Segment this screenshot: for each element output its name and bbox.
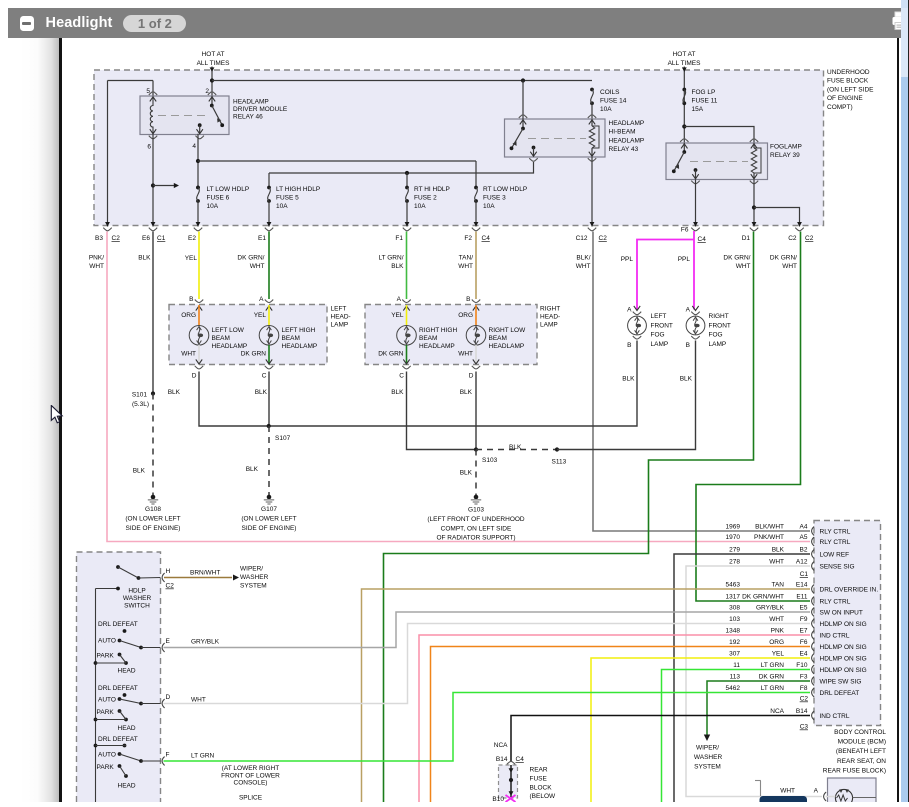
wire BLK dashed S103 to G103 (475, 450, 477, 498)
svg-text:HEAD: HEAD (118, 668, 136, 675)
svg-text:BLK: BLK (168, 389, 181, 396)
svg-text:NCA: NCA (770, 708, 784, 715)
svg-text:BLK: BLK (680, 376, 693, 383)
switch section E: AUTO position and blade (98, 638, 161, 650)
wire YEL 307 row (591, 658, 810, 802)
wire LT GRN 11 row (662, 670, 811, 803)
svg-text:HEADLAMP: HEADLAMP (489, 343, 525, 350)
fog lamp bulb right front fog lamp (686, 316, 705, 335)
svg-text:SYSTEM: SYSTEM (694, 764, 721, 771)
relay46 coil (pin5-pin6) (149, 92, 157, 139)
wiper washer switch contacts (116, 565, 160, 580)
svg-text:BODY CONTROL: BODY CONTROL (834, 729, 886, 736)
svg-text:1317: 1317 (726, 594, 741, 601)
svg-text:FOG: FOG (709, 332, 723, 339)
svg-text:FUSE: FUSE (530, 775, 548, 782)
switch section F: AUTO position and blade (98, 752, 161, 763)
svg-text:IND CTRL: IND CTRL (820, 633, 850, 640)
splice S103 (474, 447, 498, 464)
svg-text:RELAY 39: RELAY 39 (770, 152, 800, 159)
svg-text:BLK/WHT: BLK/WHT (755, 524, 784, 531)
svg-text:LAMP: LAMP (651, 341, 669, 348)
svg-text:REAR: REAR (530, 767, 548, 774)
wire WHT 278 row (686, 566, 822, 797)
label: foglamp relay 39 (770, 144, 802, 160)
arrow: branch pointer at pin6 wire (153, 183, 179, 188)
label fuse 5 (276, 186, 320, 210)
svg-text:A: A (686, 307, 691, 314)
lamp bulb LEFT LOW (189, 326, 209, 346)
switch section D: HEAD position (118, 711, 136, 732)
connector bracket B14 (507, 761, 515, 764)
svg-text:FUSE 5: FUSE 5 (276, 195, 299, 202)
fuse F5 LT HIGH HDLP 10A (267, 173, 272, 227)
wire TAN 5463 row (362, 589, 811, 802)
svg-text:GRY/BLK: GRY/BLK (756, 605, 785, 612)
svg-text:WASHER: WASHER (240, 574, 269, 581)
label hdlp washer switch (123, 588, 152, 610)
svg-text:DK GRN: DK GRN (378, 351, 404, 358)
headlamp connector B (466, 296, 480, 311)
svg-text:278: 278 (729, 559, 740, 566)
svg-text:307: 307 (729, 651, 740, 658)
connector B14 C4 labels (496, 756, 524, 763)
svg-text:D: D (166, 694, 171, 701)
label wiper washer system (top) (240, 566, 269, 590)
svg-text:HEADLAMP: HEADLAMP (233, 99, 269, 106)
labels RIGHT LOW (489, 327, 527, 350)
svg-text:E7: E7 (800, 628, 808, 635)
svg-text:BEAM: BEAM (419, 335, 437, 342)
svg-text:A: A (259, 296, 264, 303)
page curl shadow (20, 38, 59, 802)
svg-text:WIPER/: WIPER/ (696, 745, 719, 752)
lamp bulb RIGHT LOW (466, 326, 486, 346)
svg-text:WHT: WHT (89, 263, 104, 270)
wire: fog fuse to relay39 coil feed (684, 127, 754, 144)
svg-text:BLK: BLK (509, 444, 522, 451)
label left headlamp (331, 306, 351, 329)
svg-text:E14: E14 (796, 582, 808, 589)
label LT GRN/BLK (378, 255, 404, 271)
svg-text:PARK: PARK (97, 709, 115, 716)
window right edge (907, 0, 909, 802)
svg-text:PNK/: PNK/ (89, 255, 104, 262)
svg-text:1348: 1348 (726, 628, 741, 635)
svg-text:(BELOW: (BELOW (530, 793, 557, 800)
switch rail tap D (94, 718, 126, 722)
svg-text:FRONT OF LOWER: FRONT OF LOWER (221, 772, 280, 779)
svg-text:FUSE 11: FUSE 11 (692, 98, 718, 105)
label right headlamp (540, 306, 560, 329)
svg-text:DRIVER MODULE: DRIVER MODULE (233, 106, 288, 113)
svg-text:C: C (399, 373, 404, 380)
svg-text:D1: D1 (742, 235, 751, 242)
svg-text:D: D (469, 373, 474, 380)
wire ORG into lamp (475, 305, 477, 326)
svg-text:F2: F2 (464, 235, 472, 242)
wire: hot bus left segment to B3 riser (108, 80, 154, 82)
svg-text:HDLP: HDLP (128, 588, 145, 595)
wire TAN/WHT from F2 to right headlamp B (475, 232, 477, 300)
svg-text:(ON LEFT SIDE: (ON LEFT SIDE (827, 86, 874, 93)
svg-text:YEL: YEL (391, 312, 404, 319)
svg-text:ALL TIMES: ALL TIMES (197, 60, 231, 67)
svg-text:COMPT, ON LEFT SIDE: COMPT, ON LEFT SIDE (441, 525, 512, 532)
wire WHT out of lamp (198, 345, 200, 365)
fuse F6 LT LOW HDLP 10A (196, 186, 201, 227)
svg-text:WIPER/: WIPER/ (240, 566, 263, 573)
svg-text:LEFT HIGH: LEFT HIGH (282, 327, 316, 334)
relay43 switch (510, 115, 538, 161)
svg-text:PNK/WHT: PNK/WHT (754, 534, 784, 541)
svg-text:C2: C2 (788, 235, 797, 242)
labels LEFT LOW (212, 327, 248, 350)
wire WHT out of lamp (475, 345, 477, 365)
relay39 dashed actuator line (690, 161, 748, 163)
svg-text:PPL: PPL (678, 256, 691, 263)
wire: hot bus right segment (212, 78, 592, 82)
splice S113 (552, 447, 567, 465)
label fuse 11 (692, 89, 718, 113)
mouse cursor (50, 405, 64, 426)
wire PPL from F6 to fog lamps (637, 231, 694, 310)
svg-text:BLK: BLK (460, 389, 473, 396)
label DK GRN/WHT (D1) (723, 255, 750, 271)
relay39 switch (672, 139, 700, 184)
wire PNK/WHT from B3 to BCM row 1970 (107, 232, 810, 542)
lamp bulb LEFT HIGH (259, 326, 279, 346)
svg-text:AUTO: AUTO (98, 752, 116, 759)
svg-text:DK GRN/WHT: DK GRN/WHT (742, 594, 784, 601)
svg-text:B14: B14 (496, 756, 508, 763)
svg-text:LT LOW HDLP: LT LOW HDLP (207, 186, 250, 193)
svg-text:10A: 10A (483, 203, 495, 210)
svg-text:C: C (262, 373, 267, 380)
svg-text:BEAM: BEAM (282, 335, 300, 342)
labels BLK under headlamps (168, 389, 473, 396)
svg-text:PARK: PARK (97, 653, 115, 660)
svg-text:C1: C1 (800, 571, 809, 578)
svg-text:RLY CTRL: RLY CTRL (820, 539, 851, 546)
svg-text:LAMP: LAMP (540, 322, 558, 329)
svg-text:(LEFT FRONT OF UNDERHOOD: (LEFT FRONT OF UNDERHOOD (427, 516, 525, 523)
printer icon (891, 9, 909, 33)
svg-text:FUSE BLOCK: FUSE BLOCK (827, 78, 869, 85)
svg-text:DK GRN: DK GRN (241, 351, 267, 358)
label fuse 2 (414, 186, 450, 210)
svg-text:A: A (627, 307, 632, 314)
svg-text:WHT: WHT (736, 263, 751, 270)
wire: B3 riser (105, 81, 110, 227)
connector brackets on fuse block bottom edge (103, 228, 803, 231)
svg-text:C4: C4 (482, 235, 491, 242)
svg-text:ALL TIMES: ALL TIMES (668, 60, 702, 67)
svg-text:S103: S103 (482, 457, 498, 464)
svg-text:FOG LP: FOG LP (692, 89, 716, 96)
svg-text:BLK: BLK (246, 466, 259, 473)
svg-text:SENSE SIG: SENSE SIG (820, 564, 855, 571)
svg-text:RT HI HDLP: RT HI HDLP (414, 186, 450, 193)
svg-text:A: A (814, 788, 819, 795)
svg-text:BEAM: BEAM (489, 335, 507, 342)
svg-text:5: 5 (146, 88, 150, 95)
svg-text:C2: C2 (805, 235, 814, 242)
svg-text:DRL OVERRIDE IN.: DRL OVERRIDE IN. (820, 587, 879, 594)
title bar (8, 8, 909, 38)
svg-text:HEADLAMP: HEADLAMP (282, 343, 318, 350)
connector H (162, 568, 174, 590)
rear fuse block box (499, 765, 518, 798)
svg-text:SW ON INPUT: SW ON INPUT (820, 610, 863, 617)
svg-text:SYSTEM: SYSTEM (240, 583, 267, 590)
fuse F11 FOG LP 15A (682, 88, 686, 129)
BCM box (814, 521, 881, 726)
relay46 switch (pin2-pin4) (196, 92, 225, 139)
svg-text:B2: B2 (800, 547, 808, 554)
svg-text:RELAY 43: RELAY 43 (609, 146, 639, 153)
label: headlamp driver module relay 46 (233, 99, 288, 121)
wire BLK dashed S103 to S113 (476, 449, 557, 451)
label BLK/WHT (576, 255, 591, 271)
svg-text:DRL DEFEAT: DRL DEFEAT (98, 685, 138, 692)
switch common rail (96, 587, 120, 802)
fuse F2 RT HI HDLP 10A (405, 173, 410, 227)
svg-text:BLK: BLK (460, 470, 473, 477)
fog lamp bottom connector B (left front fog lamp) (627, 336, 641, 349)
label DK GRN/WHT (237, 255, 264, 271)
svg-text:GRY/BLK: GRY/BLK (191, 639, 220, 646)
wire DK GRN/WHT from E1 to left headlamp A (268, 232, 270, 300)
headlamp bottom connector C (399, 359, 410, 379)
switch section F: HEAD position (118, 766, 136, 790)
svg-text:6: 6 (147, 144, 151, 151)
svg-text:DK GRN/: DK GRN/ (237, 255, 264, 262)
svg-text:FUSE 2: FUSE 2 (414, 195, 437, 202)
svg-text:HOT AT: HOT AT (202, 51, 225, 58)
fog lamp bulb left front fog lamp (628, 316, 647, 335)
svg-text:YEL: YEL (254, 312, 267, 319)
wire: relay46 pin5 riser (152, 81, 154, 97)
svg-text:B: B (627, 342, 631, 349)
svg-text:A: A (397, 296, 402, 303)
splice S101 (132, 391, 155, 408)
wire DK GRN 113 row to wiper system (704, 681, 810, 741)
small corner wire bottom (755, 781, 761, 797)
svg-text:DK GRN/: DK GRN/ (723, 255, 750, 262)
svg-text:B10: B10 (492, 796, 504, 802)
svg-text:BLK/: BLK/ (576, 255, 590, 262)
connector E (162, 638, 170, 652)
svg-text:LT GRN: LT GRN (191, 753, 215, 760)
ground G108 (125, 495, 180, 532)
wire inside rear fuse block (509, 765, 514, 797)
svg-text:BLK: BLK (255, 389, 268, 396)
svg-text:HDLMP ON SIG: HDLMP ON SIG (820, 667, 867, 674)
svg-text:FOGLAMP: FOGLAMP (770, 144, 802, 151)
svg-text:2: 2 (205, 88, 209, 95)
resistor lamp element bottom right (826, 789, 877, 806)
navy tooltip box (760, 796, 808, 806)
svg-text:DK GRN: DK GRN (759, 674, 785, 681)
svg-text:SWITCH: SWITCH (124, 603, 150, 610)
fog lamp connector A (left front fog lamp) (627, 306, 641, 315)
svg-text:279: 279 (729, 547, 740, 554)
label PNK/WHT (89, 255, 104, 271)
svg-text:F10: F10 (796, 662, 808, 669)
label fuse 3 (483, 186, 527, 210)
svg-text:LOW REF: LOW REF (820, 552, 850, 559)
right headlamp box (365, 305, 537, 365)
headlamp bottom connector D (192, 359, 203, 379)
svg-text:(AT LOWER RIGHT: (AT LOWER RIGHT (222, 765, 280, 772)
svg-text:B: B (189, 296, 193, 303)
wire DK GRN out of lamp (406, 345, 408, 365)
svg-text:RT LOW HDLP: RT LOW HDLP (483, 186, 527, 193)
wire WHT 103 row to switch D (164, 624, 811, 704)
svg-text:FUSE 6: FUSE 6 (207, 195, 230, 202)
svg-text:192: 192 (729, 639, 740, 646)
svg-text:C2: C2 (599, 235, 608, 242)
labels left front fog lamp (651, 313, 673, 348)
scrollbar top button (901, 0, 908, 8)
label: underhood fuse block location (827, 69, 874, 111)
svg-text:C1: C1 (157, 235, 166, 242)
page count pill (123, 15, 186, 32)
fog lamp connector A (right front fog lamp) (686, 306, 700, 315)
svg-text:BLOCK: BLOCK (530, 784, 553, 791)
svg-text:C4: C4 (698, 236, 707, 243)
labels PPL (621, 256, 691, 263)
label at lower right front of lower console splice (221, 765, 280, 802)
svg-text:HEADLAMP: HEADLAMP (609, 120, 645, 127)
switch rail tap E (94, 661, 126, 665)
svg-text:E: E (166, 638, 171, 645)
label fuse 6 (207, 186, 250, 210)
svg-text:BLK: BLK (772, 547, 785, 554)
label body control module (823, 729, 887, 774)
svg-text:DRL DEFEAT: DRL DEFEAT (98, 621, 138, 628)
headlamp bottom connector C (262, 359, 273, 379)
wire: fused feed bus y161 (198, 160, 476, 162)
svg-text:(BENEATH LEFT: (BENEATH LEFT (836, 748, 886, 755)
svg-text:COILS: COILS (600, 89, 620, 96)
svg-text:H: H (166, 568, 171, 575)
wire BLK/WHT from C12 to BCM row 1969 (593, 232, 810, 532)
wire: relay43 coil to C12 exit (590, 157, 595, 227)
wire LT GRN 5462 row to switch F (164, 693, 811, 762)
switch section E: PARK position (97, 653, 122, 660)
svg-text:BLK: BLK (391, 389, 404, 396)
svg-text:WASHER: WASHER (123, 595, 152, 602)
svg-text:HDLMP ON SIG: HDLMP ON SIG (820, 656, 867, 663)
svg-text:WHT: WHT (458, 351, 473, 358)
svg-text:AUTO: AUTO (98, 638, 116, 645)
svg-text:113: 113 (730, 674, 741, 681)
svg-text:(5.3L): (5.3L) (132, 401, 149, 408)
svg-text:HEAD-: HEAD- (331, 314, 351, 321)
wire BLK dashed S107 to G107 (268, 426, 270, 497)
svg-text:BLK: BLK (391, 263, 404, 270)
wire DK GRN/WHT from D1 (relay39) routing to lower left (384, 232, 754, 803)
svg-text:HEAD-: HEAD- (540, 314, 560, 321)
switch section E: HEAD position (118, 655, 136, 675)
svg-text:WHT: WHT (782, 263, 797, 270)
svg-text:S107: S107 (275, 435, 291, 442)
svg-text:BLK: BLK (133, 468, 146, 475)
wire YEL from E2 to left headlamp B (198, 232, 200, 300)
svg-text:WHT: WHT (780, 788, 795, 795)
title text (46, 15, 113, 31)
svg-text:E1: E1 (258, 235, 266, 242)
scrollbar track (901, 0, 908, 802)
connector labels row (95, 227, 814, 244)
svg-text:(ON LOWER LEFT: (ON LOWER LEFT (241, 516, 296, 523)
svg-text:A12: A12 (796, 559, 808, 566)
switch section F: DRL DEFEAT position (98, 736, 138, 747)
relay K39 foglamp relay box (666, 143, 768, 180)
wire: relay46 pin4 down to junction (196, 134, 200, 188)
relay39 coil with parallel resistor (750, 139, 761, 184)
wire: relay46 pin6 to E6 exit (151, 134, 156, 227)
svg-text:F1: F1 (395, 235, 403, 242)
svg-text:1969: 1969 (726, 524, 741, 531)
svg-text:F3: F3 (800, 674, 808, 681)
svg-text:AUTO: AUTO (98, 697, 116, 704)
wire: relay39 coil low side to D1 and C2 exits (752, 180, 802, 227)
svg-text:B: B (466, 296, 470, 303)
svg-text:A4: A4 (800, 524, 808, 531)
wire BLK from E6 to S101 (152, 232, 154, 394)
svg-text:E6: E6 (142, 235, 150, 242)
wire BLK 279 row (674, 554, 810, 802)
svg-text:C2: C2 (112, 235, 121, 242)
svg-text:F6: F6 (800, 639, 808, 646)
svg-text:(ON LOWER LEFT: (ON LOWER LEFT (125, 516, 180, 523)
wire BLK left fog B to S107 bus (269, 341, 637, 427)
splice S107 (267, 424, 291, 442)
label: hot at all times (right) (668, 51, 702, 67)
svg-text:C3: C3 (800, 724, 809, 731)
relay43 dashed actuator line (528, 138, 586, 140)
left headlamp box (169, 305, 327, 365)
svg-text:HEADLAMP: HEADLAMP (609, 137, 645, 144)
lamp bulb RIGHT HIGH (397, 326, 417, 346)
fuse F3 RT LOW HDLP 10A (474, 161, 479, 227)
wire GRY/BLK 308 row to switch E (164, 612, 811, 648)
svg-text:C12: C12 (576, 235, 588, 242)
svg-text:WHT: WHT (250, 263, 265, 270)
svg-text:REAR FUSE BLOCK): REAR FUSE BLOCK) (823, 767, 886, 774)
wire ORG into lamp (198, 305, 200, 326)
svg-text:WHT: WHT (181, 351, 196, 358)
svg-text:HDLMP ON SIG: HDLMP ON SIG (820, 644, 867, 651)
left page edge line (59, 38, 62, 802)
svg-text:E11: E11 (796, 594, 807, 601)
wire: relay39 switched output to F6 exit (693, 180, 698, 227)
BCM connector pin table text (726, 524, 808, 716)
svg-text:SPLICE: SPLICE (239, 795, 263, 802)
label NCA (rear fuse block) (494, 742, 508, 749)
svg-text:F8: F8 (800, 685, 808, 692)
svg-text:MODULE (BCM): MODULE (BCM) (838, 739, 886, 746)
svg-text:WHT: WHT (769, 559, 784, 566)
svg-text:ORG: ORG (769, 639, 784, 646)
svg-text:NCA: NCA (494, 742, 508, 749)
svg-text:C2: C2 (166, 583, 175, 590)
wire PNK 1348 row (419, 635, 810, 802)
svg-text:ORG: ORG (458, 312, 473, 319)
